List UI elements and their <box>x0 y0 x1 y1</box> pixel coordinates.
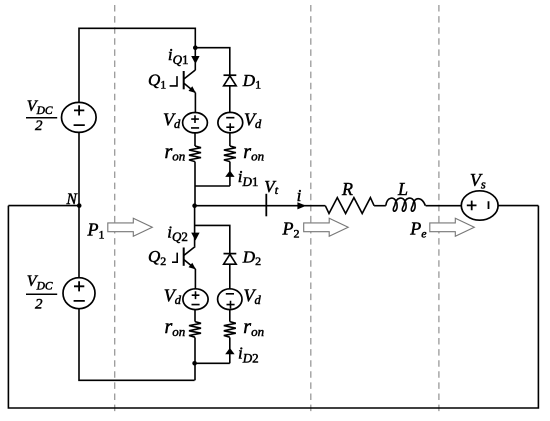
resistor ron (D1 branch) <box>224 146 236 162</box>
wire D2 to Vd (D2 branch) <box>229 264 231 289</box>
svg-text:P1: P1 <box>87 220 105 242</box>
wire ron to node Vt <box>194 162 196 206</box>
svg-text:Vt: Vt <box>264 177 278 197</box>
node top junction dot <box>193 45 198 50</box>
wire ron to jog (D1 branch) <box>229 162 231 186</box>
boundary dashed line 1 <box>114 5 116 415</box>
svg-text:iQ1: iQ1 <box>168 45 189 67</box>
current arrow iD1 <box>225 171 234 177</box>
current arrow iQ2 <box>191 233 199 241</box>
wire jog D1 branch to main <box>195 185 230 187</box>
svg-text:Q1: Q1 <box>148 71 166 92</box>
svg-text:Pe: Pe <box>409 219 427 241</box>
resistor ron (Q1 branch) <box>189 146 201 162</box>
wire top junction to Q1 collector <box>194 48 196 70</box>
svg-text:iD2: iD2 <box>238 344 259 366</box>
node bottom junction dot <box>192 361 197 366</box>
label VDC/2 top <box>26 98 57 134</box>
wire Vd to ron (D2 branch) <box>229 310 231 322</box>
node Vt dot <box>192 203 197 208</box>
svg-text:Q2: Q2 <box>148 247 166 268</box>
inductor L <box>386 198 426 211</box>
power arrow P1 <box>108 218 153 236</box>
wire top junction to D1 <box>195 48 230 75</box>
transistor Q2 (IGBT) <box>172 246 196 269</box>
wire L to Vs <box>426 205 462 207</box>
wire Q2 emitter to Vd <box>194 269 196 289</box>
wire D1 to Vd (D1 branch) <box>229 86 231 113</box>
power arrow Pe <box>430 218 475 236</box>
svg-text:Vs: Vs <box>470 170 486 192</box>
wire ron to bottom jog (D2 branch) <box>229 337 231 363</box>
DC source VDC/2 bottom <box>63 278 95 309</box>
power arrow P2 <box>304 218 349 236</box>
resistor ron (D2 branch) <box>224 322 236 338</box>
svg-text:iD1: iD1 <box>238 167 259 189</box>
svg-text:Vd: Vd <box>244 286 262 308</box>
svg-text:VDC: VDC <box>27 98 53 117</box>
label VDC/2 bottom <box>26 273 57 312</box>
source Vd (Q1 branch) <box>183 113 208 133</box>
wire output row <box>195 205 326 207</box>
svg-text:2: 2 <box>35 297 43 313</box>
wire top rail <box>79 28 195 102</box>
wire node Vt to Q2 collector <box>194 206 196 246</box>
svg-text:Vd: Vd <box>163 109 181 130</box>
source Vd (D1 branch) <box>218 112 243 132</box>
svg-text:ron: ron <box>165 316 186 339</box>
svg-text:P2: P2 <box>282 219 300 241</box>
svg-text:i: i <box>297 186 302 205</box>
source Vd (Q2 branch) <box>183 289 208 310</box>
transistor Q1 (IGBT) <box>170 70 196 93</box>
wire Vd to ron (D1 branch) <box>229 133 231 146</box>
svg-text:L: L <box>397 179 408 199</box>
current arrow i <box>297 202 306 209</box>
svg-text:D1: D1 <box>242 71 261 92</box>
current arrow iD2 <box>225 348 234 354</box>
svg-text:D2: D2 <box>242 247 261 268</box>
wire VDC top to node N <box>78 132 80 277</box>
node N dot <box>77 203 82 208</box>
boundary dashed line 3 <box>438 5 440 415</box>
wire Vd to ron (Q2 branch) <box>194 310 196 322</box>
svg-text:ron: ron <box>165 141 186 164</box>
source Vd (D2 branch) <box>218 289 242 310</box>
resistor ron (Q2 branch) <box>189 322 201 338</box>
svg-text:2: 2 <box>35 118 43 134</box>
node Vt tick <box>265 194 267 217</box>
svg-text:Vd: Vd <box>244 109 262 130</box>
diode D1 <box>224 75 237 86</box>
svg-text:R: R <box>341 179 353 199</box>
current arrow iQ1 <box>191 56 199 64</box>
DC source VDC/2 top <box>62 102 97 132</box>
diode D2 <box>224 254 237 265</box>
svg-text:VDC: VDC <box>27 273 53 292</box>
wire R to L <box>374 205 386 207</box>
svg-text:ron: ron <box>243 316 264 339</box>
svg-text:iQ2: iQ2 <box>167 222 188 244</box>
wire Vs to right edge <box>498 205 538 207</box>
wire Vd to ron (Q1 branch) <box>194 133 196 146</box>
source Vs <box>461 191 498 220</box>
wire ron to bottom node (Q2 branch) <box>194 337 196 380</box>
wire VDC bottom to bottom rail corner <box>79 309 195 380</box>
boundary dashed line 2 <box>310 5 312 415</box>
outer return loop wire <box>8 206 538 408</box>
svg-text:Vd: Vd <box>164 286 182 308</box>
svg-text:ron: ron <box>243 141 264 164</box>
wire jog node Vt to D2 branch <box>195 225 230 253</box>
wire Q1 emitter to Vd <box>194 93 196 113</box>
resistor R <box>325 198 374 214</box>
wire bottom jog D2 to main <box>195 362 230 364</box>
wire N to left edge <box>8 205 79 207</box>
